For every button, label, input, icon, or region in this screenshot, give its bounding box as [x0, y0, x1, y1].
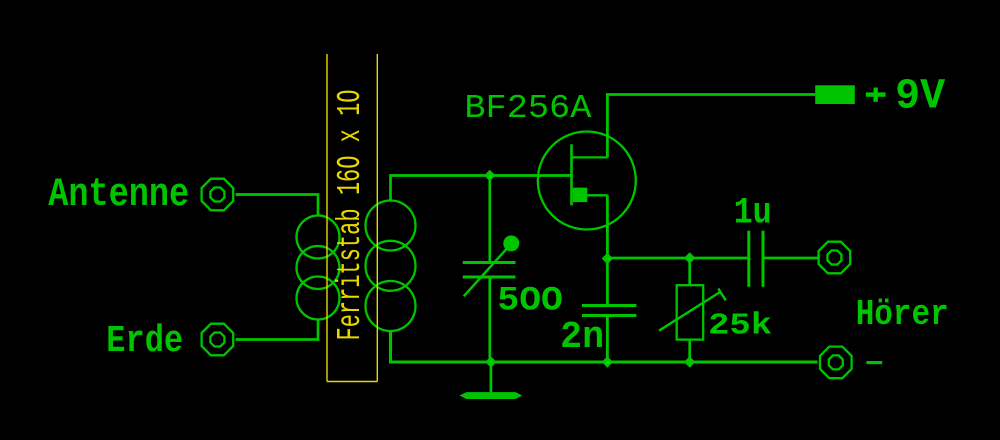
JFET drain internal lead	[572, 156, 608, 158]
wire drain to V+ rail	[607, 95, 815, 158]
terminal Hoerer plus pad	[819, 242, 851, 274]
svg-text:2n: 2n	[560, 316, 604, 359]
wire bottom rail	[391, 331, 818, 362]
svg-text:Antenne: Antenne	[48, 173, 189, 218]
junction at gate node	[484, 170, 495, 181]
JFET source arrow square	[573, 188, 588, 203]
JFET gate bar	[570, 144, 573, 205]
wire antenna to primary coil	[236, 195, 319, 217]
wire ground lead	[490, 362, 493, 392]
JFET BF256A body circle	[538, 132, 636, 230]
wire primary coil to earth	[236, 320, 319, 340]
secondary coil L1b circle 3	[366, 281, 416, 331]
ground symbol bar	[460, 392, 523, 399]
terminal Antenne pad	[202, 179, 234, 211]
secondary coil L1b circle 1	[366, 201, 416, 251]
junction at 25k bottom node	[684, 356, 695, 367]
primary coil L1a circle 3	[297, 277, 340, 320]
ferrite rod right edge	[376, 54, 378, 382]
capacitor 1u right plate	[762, 231, 765, 287]
JFET source internal lead	[586, 194, 608, 196]
primary coil L1a circle 2	[297, 246, 340, 289]
capacitor 500 top plate	[463, 261, 516, 264]
wire potentiometer bottom lead	[688, 340, 691, 362]
svg-text:Erde: Erde	[106, 320, 183, 363]
svg-text:5OO: 5OO	[497, 283, 563, 321]
svg-text:BF256A: BF256A	[464, 90, 591, 127]
secondary coil L1b circle 2	[366, 241, 416, 291]
svg-text:25k: 25k	[708, 310, 772, 344]
capacitor 500 arrow	[464, 244, 511, 296]
plus sign of 9V label	[866, 92, 886, 96]
svg-text:Ferritstab 16O x 1O: Ferritstab 16O x 1O	[332, 89, 369, 340]
capacitor 2n top plate	[582, 304, 636, 307]
potentiometer 25k arrow	[659, 292, 721, 331]
ferrite rod bottom edge	[327, 381, 377, 383]
wire variable capacitor top lead	[488, 176, 491, 263]
wire variable capacitor bottom lead	[488, 277, 491, 362]
wire output node horizontal	[607, 257, 747, 260]
potentiometer 25k body	[677, 285, 704, 339]
junction at ground node	[485, 356, 496, 367]
variable capacitor arrow dot	[503, 235, 519, 251]
wire potentiometer top lead	[688, 258, 691, 285]
svg-text:Hörer: Hörer	[856, 294, 949, 335]
terminal Hoerer minus pad	[820, 347, 852, 379]
wire secondary coil top to gate	[391, 176, 572, 201]
minus sign at headphone	[866, 361, 882, 364]
capacitor 2n bottom plate	[582, 314, 636, 317]
supply symbol +9V rectangle	[815, 85, 855, 104]
svg-text:1u: 1u	[734, 193, 772, 235]
junction at 2n bottom node	[602, 356, 613, 367]
junction at 1u node	[684, 252, 695, 263]
capacitor 500 bottom plate	[463, 276, 516, 279]
terminal Erde pad	[202, 324, 234, 356]
wire source down through node to 2n	[606, 195, 609, 305]
ferrite rod left edge	[326, 54, 328, 382]
primary coil L1a circle 1	[297, 216, 340, 259]
wire 2n bottom lead	[606, 316, 609, 363]
junction at source node	[602, 253, 613, 264]
wire 1u to headphone terminal	[765, 257, 818, 260]
svg-text:9V: 9V	[895, 71, 945, 120]
capacitor 1u left plate	[747, 231, 750, 287]
potentiometer 25k arrow tick	[718, 289, 726, 301]
